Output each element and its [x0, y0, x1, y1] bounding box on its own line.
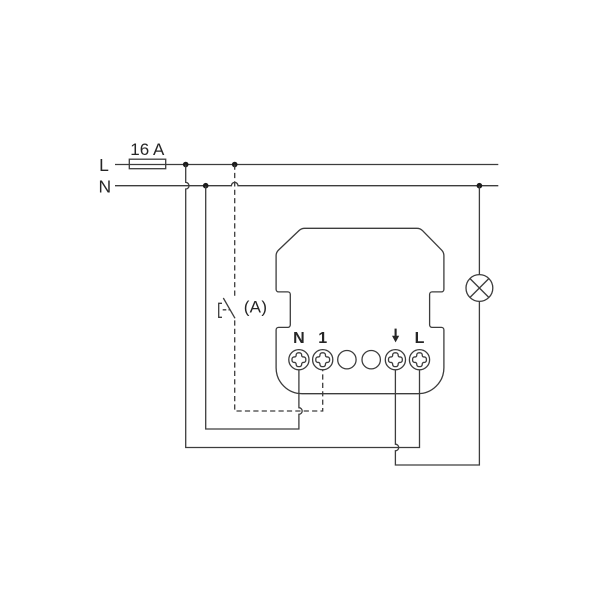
- wire from N junction down to lamp top: [478, 186, 480, 275]
- wire from L junction down (hops over N line), along bottom, up to device terminal L: [186, 165, 420, 448]
- dimmer insert U1 outline: [276, 228, 444, 393]
- svg-text:1: 1: [318, 330, 327, 347]
- svg-text:N: N: [98, 176, 111, 196]
- terminal hole 4 (unlabelled): [362, 351, 380, 369]
- push-button switch S1 actuator link (dashed): [223, 309, 230, 311]
- svg-text:L: L: [99, 155, 109, 175]
- dashed switched wire: below S1 down, right, up to device terminal 1: [235, 320, 323, 411]
- terminal N screw: [289, 350, 309, 370]
- wire from device terminal N down (hops over dashed wire), left, up to N junction: [206, 186, 302, 429]
- wire from device arrow terminal down (hops over L feed wire), right, up to lamp bottom: [395, 301, 479, 465]
- terminal 1 screw: [313, 350, 333, 370]
- terminal arrow screw: [385, 350, 405, 370]
- dashed switched wire: L junction down to push-button S1: [234, 165, 236, 297]
- svg-text:L: L: [415, 330, 425, 347]
- svg-text:(A): (A): [244, 298, 268, 317]
- terminal label arrow (dimmed output): [395, 329, 397, 337]
- terminal L screw: [409, 350, 429, 370]
- lamp E1 cross: [470, 279, 489, 298]
- svg-text:N: N: [293, 330, 305, 347]
- wire L supply line: [115, 164, 498, 166]
- junction on N line at lamp feed: [477, 183, 483, 189]
- push-button switch S1 actuator bracket: [219, 303, 222, 317]
- junction on N line at device N feed: [203, 183, 209, 189]
- wire N supply line (hops over dashed switch wire at x=234.7): [115, 182, 498, 185]
- push-button switch S1 blade: [223, 298, 235, 318]
- junction on L line at fused feed: [183, 162, 189, 168]
- fuse F1: [129, 159, 165, 169]
- lamp E1 circle: [466, 275, 493, 302]
- svg-text:16 A: 16 A: [130, 140, 165, 159]
- terminal hole 3 (unlabelled): [338, 351, 356, 369]
- junction on L line at switch tap: [232, 162, 238, 168]
